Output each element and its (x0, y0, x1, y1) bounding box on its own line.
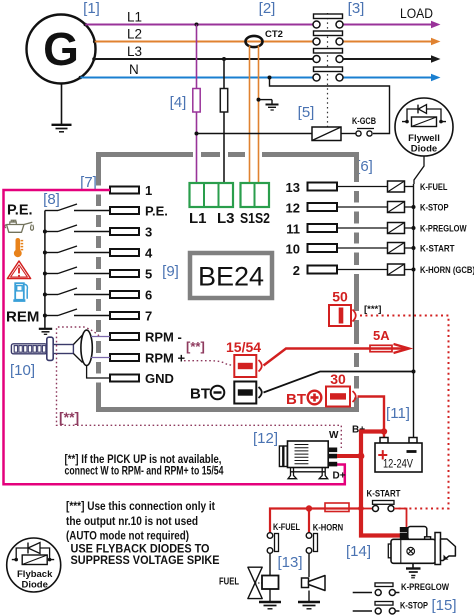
wire L1 tap down (196, 25, 198, 184)
svg-text:5A: 5A (373, 328, 390, 343)
node on L3 (222, 57, 226, 61)
svg-text:K-HORN: K-HORN (313, 523, 344, 534)
label [12] (253, 430, 278, 447)
svg-text:[1]: [1] (83, 0, 100, 17)
svg-text:10: 10 (286, 242, 300, 257)
svg-text:[2]: [2] (259, 0, 276, 17)
label B+ (352, 425, 365, 436)
svg-text:G: G (43, 23, 79, 75)
relay common wire to battery minus (412, 184, 416, 438)
svg-text:W: W (329, 430, 339, 441)
label [8] (43, 191, 60, 208)
svg-text:50: 50 (332, 289, 348, 305)
svg-text:[3]: [3] (348, 0, 365, 17)
svg-text:15/54: 15/54 (226, 339, 261, 355)
wire BT- to common (264, 372, 414, 393)
svg-text:2: 2 (293, 263, 300, 278)
note output 10 (66, 501, 215, 542)
fuel valve (219, 567, 279, 598)
label [11] (386, 405, 410, 422)
flywell diode symbol circle (395, 98, 453, 156)
label [6] (356, 158, 373, 175)
svg-text:N: N (129, 62, 139, 77)
wire 15/54 to 5A fuse (264, 344, 410, 366)
REM input label (6, 309, 39, 326)
contact K-FUEL (267, 522, 300, 576)
svg-text:1: 1 (145, 183, 152, 198)
contactor GCB poles [2]/[3] (313, 13, 343, 127)
relay coil K-START (388, 243, 455, 255)
svg-text:Flywell: Flywell (408, 133, 440, 144)
wire L1 (85, 10, 440, 29)
svg-text:6: 6 (145, 288, 152, 303)
generator G (27, 15, 97, 84)
wire K-HORN branch (308, 509, 310, 534)
output terminal 12 (286, 201, 388, 216)
label [3] (348, 0, 365, 17)
svg-text:[***] Use this connection only: [***] Use this connection only it (66, 501, 215, 513)
svg-text:[**]: [**] (59, 409, 79, 425)
terminal 7 (110, 309, 152, 324)
svg-text:K-STOP: K-STOP (400, 601, 429, 612)
warning triangle icon (7, 261, 30, 279)
svg-text:7: 7 (145, 309, 152, 324)
svg-text:D+: D+ (333, 471, 346, 482)
label [**] upper (186, 339, 205, 354)
svg-text:RPM +: RPM + (145, 351, 186, 366)
note pick up (65, 454, 224, 477)
svg-text:K-START: K-START (367, 489, 401, 500)
terminal RPM+ (110, 351, 186, 366)
battery main cable (361, 428, 404, 535)
oil pressure icon (5, 220, 34, 232)
pickup wire to GND (87, 366, 110, 379)
dotted W to RPM- alternative (57, 327, 342, 448)
svg-text:[13]: [13] (277, 554, 302, 571)
svg-text:K-START: K-START (420, 244, 455, 255)
terminal P.E. (110, 204, 168, 219)
wire N to K-GCB contact (270, 78, 390, 134)
relay coil K-STOP (388, 202, 450, 214)
relay coil K-FUEL (388, 181, 448, 193)
fuse 50 terminal (329, 289, 356, 327)
wire relay coil to L1 tap (195, 132, 313, 136)
svg-text:[**] If the PICK UP is not ava: [**] If the PICK UP is not available, (65, 454, 222, 466)
svg-text:connect W to RPM- and RPM+ to: connect W to RPM- and RPM+ to 15/54 (65, 465, 224, 477)
label [4] (170, 94, 187, 111)
fuse [4] on L1 tap (193, 89, 200, 113)
label [15] (431, 597, 456, 614)
terminal 15/54 (226, 339, 262, 377)
label [7] (80, 174, 97, 191)
svg-text:[5]: [5] (298, 104, 315, 121)
svg-text:P.E.: P.E. (145, 204, 168, 219)
ground of horn (298, 591, 320, 609)
svg-text:3: 3 (145, 225, 152, 240)
note flyback (71, 544, 220, 568)
svg-text:RPM -: RPM - (145, 330, 182, 345)
svg-text:[11]: [11] (386, 405, 410, 422)
ground of fuel valve (259, 589, 281, 609)
svg-text:BE24: BE24 (198, 262, 264, 292)
svg-text:K-PREGLOW: K-PREGLOW (401, 582, 449, 593)
BE24 logo box (190, 253, 272, 298)
label [**] lower (59, 409, 79, 425)
svg-text:K-FUEL: K-FUEL (420, 182, 448, 193)
svg-text:[10]: [10] (10, 362, 35, 379)
svg-text:K-GCB: K-GCB (352, 116, 376, 127)
svg-text:BT: BT (190, 386, 210, 403)
label [14] (346, 543, 371, 560)
fuel pump icon (13, 283, 27, 300)
svg-text:L2: L2 (127, 27, 142, 42)
horn (302, 576, 326, 591)
svg-text:SUPPRESS VOLTAGE SPIKE: SUPPRESS VOLTAGE SPIKE (71, 555, 220, 567)
terminal BT minus (190, 382, 262, 404)
svg-text:[15]: [15] (431, 597, 456, 614)
svg-text:Diode: Diode (22, 580, 48, 591)
svg-text:K-FUEL: K-FUEL (273, 522, 300, 533)
svg-text:[***]: [***] (364, 304, 381, 315)
svg-text:BT: BT (286, 391, 306, 408)
svg-text:GND: GND (145, 371, 174, 386)
relay coil GCB [5] (312, 127, 341, 141)
pickup sensor [10] (11, 330, 92, 365)
svg-text:30: 30 (330, 371, 346, 387)
charge alternator [12] (279, 430, 345, 482)
CT secondary lead S2 (258, 46, 260, 184)
contact K-START (361, 489, 407, 528)
terminal 30 BT plus (286, 371, 356, 408)
P.E. input label (7, 203, 33, 219)
temperature icon (14, 240, 23, 257)
output terminal 2 (293, 263, 388, 278)
label [1] (83, 0, 100, 17)
output terminal 13 (286, 180, 388, 195)
flywell leader line (414, 156, 424, 184)
svg-text:K-STOP: K-STOP (420, 203, 449, 214)
terminal 3 (110, 225, 152, 240)
terminal 6 (110, 288, 152, 303)
label [5] (298, 104, 315, 121)
output terminal 11 (286, 222, 387, 237)
current transformer CT2 (246, 29, 283, 47)
svg-text:[12]: [12] (253, 430, 278, 447)
svg-text:(AUTO mode not required): (AUTO mode not required) (66, 530, 189, 542)
terminal 4 (110, 246, 153, 261)
svg-text:[9]: [9] (162, 263, 179, 280)
svg-text:L1: L1 (189, 210, 207, 227)
wire L3 tap down (223, 59, 225, 183)
CT secondary lead S1 (249, 46, 251, 184)
fuse on accessory feed (270, 503, 364, 533)
starter motor [14] (388, 527, 455, 565)
pickup wire to RPM+ (91, 357, 110, 359)
wire B+ to battery cable (337, 453, 364, 460)
controller box border (96, 152, 359, 412)
relay coil K-PREGLOW (388, 223, 467, 235)
svg-text:K-HORN (GCB): K-HORN (GCB) (420, 265, 474, 276)
svg-text:S1S2: S1S2 (240, 210, 270, 227)
svg-text:FUEL: FUEL (219, 577, 239, 588)
dotted wire 50 to K-START contact (360, 316, 449, 509)
wire terminal1 to D+ (pink) (4, 190, 345, 484)
terminal GND (110, 371, 174, 386)
terminal 1 (110, 183, 152, 198)
contact K-PREGLOW (353, 582, 449, 596)
svg-text:LOAD: LOAD (400, 6, 433, 21)
svg-text:[4]: [4] (170, 94, 187, 111)
svg-text:11: 11 (286, 222, 300, 237)
fuse [4] on L3 tap (220, 89, 227, 113)
svg-text:[7]: [7] (80, 174, 97, 191)
terminal RPM- (110, 330, 182, 345)
svg-text:5: 5 (145, 267, 152, 282)
svg-text:4: 4 (145, 246, 153, 261)
relay coil K-HORN (388, 264, 474, 276)
svg-text:12-24V: 12-24V (383, 459, 413, 471)
ground of switch common (39, 329, 52, 335)
svg-text:the output nr.10 is not used: the output nr.10 is not used (66, 516, 198, 528)
node on L1 (195, 23, 199, 27)
pickup wire to RPM- (91, 336, 110, 338)
dotted RPM+ to 15/54 alternative (184, 361, 234, 366)
battery 12-24V (375, 438, 422, 473)
label [10] (10, 362, 35, 379)
label [***] top (364, 304, 381, 315)
fuse 5A (370, 328, 392, 352)
wire 30 to battery plus (358, 397, 385, 439)
svg-text:USE FLYBACK DIODES TO: USE FLYBACK DIODES TO (71, 544, 210, 556)
svg-text:CT2: CT2 (265, 29, 283, 40)
wire L3 (94, 44, 441, 63)
svg-text:REM: REM (6, 309, 39, 326)
input switches [8] (43, 204, 110, 328)
terminal 5 (110, 267, 152, 282)
node on N (268, 76, 272, 80)
LOAD label (400, 6, 433, 21)
svg-text:L3: L3 (217, 210, 235, 227)
output terminal 10 (286, 242, 388, 257)
contact K-HORN (306, 523, 343, 578)
svg-text:Diode: Diode (411, 144, 437, 155)
node on S2 lead + ground (257, 98, 279, 110)
label [2] (259, 0, 276, 17)
flyback diode symbol circle (7, 538, 61, 592)
ground of starter (406, 563, 421, 578)
svg-text:L3: L3 (127, 44, 142, 59)
svg-text:L1: L1 (127, 10, 142, 25)
contact K-GCB (341, 116, 376, 136)
svg-text:[**]: [**] (186, 339, 205, 354)
svg-text:[14]: [14] (346, 543, 371, 560)
wire L2 (95, 27, 441, 46)
wire N (80, 62, 440, 81)
label [13] (277, 554, 302, 571)
svg-text:K-PREGLOW: K-PREGLOW (420, 224, 467, 235)
svg-text:[8]: [8] (43, 191, 60, 208)
contact K-STOP (353, 601, 429, 615)
svg-text:12: 12 (286, 201, 300, 216)
ground below generator (52, 84, 72, 132)
svg-text:13: 13 (286, 180, 300, 195)
green terminal block L1 L3 (189, 183, 235, 227)
svg-text:P.E.: P.E. (7, 203, 33, 219)
label [9] (162, 263, 179, 280)
green terminal block S1 S2 (240, 183, 270, 227)
svg-text:Flyback: Flyback (17, 569, 53, 580)
